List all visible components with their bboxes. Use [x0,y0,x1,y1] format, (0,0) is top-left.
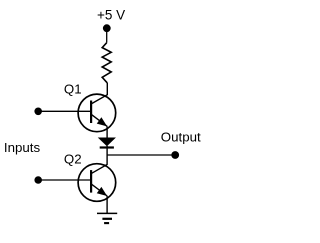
wire Q2 emitter to ground [106,196,108,213]
wire diode to output node and Q2 collector [91,146,107,174]
wire supply dot to resistor [106,28,108,43]
resistor R1 [102,43,111,83]
wire output [107,154,175,156]
node input 1 terminal dot [34,108,42,116]
svg-text:Output: Output [161,129,201,144]
svg-text:Q2: Q2 [64,151,82,166]
svg-text:+5 V: +5 V [97,8,125,23]
node input 2 terminal dot [34,176,42,184]
wire resistor to Q1 collector [91,83,107,104]
svg-text:Inputs: Inputs [4,140,41,155]
wire input 2 to Q2 base [38,179,90,181]
svg-text:Q1: Q1 [64,81,82,96]
diode D1 [99,138,116,148]
node output terminal dot [171,151,179,159]
ground [97,213,117,223]
wire input 1 to Q1 base [38,110,90,112]
transistor Q2 [78,164,116,202]
transistor Q1 [78,94,116,132]
node +5V supply dot [103,24,111,32]
wire Q1 emitter to diode [106,126,108,138]
